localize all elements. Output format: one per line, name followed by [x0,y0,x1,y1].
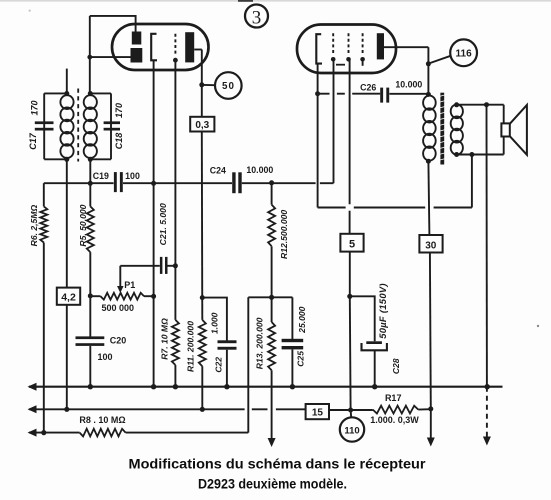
svg-text:0,3: 0,3 [195,120,209,131]
svg-text:R12.500.000: R12.500.000 [279,210,289,259]
svg-text:C22: C22 [214,357,224,373]
svg-text:R5. 50.000: R5. 50.000 [78,204,88,246]
svg-text:R6. 2,5MΩ: R6. 2,5MΩ [29,205,39,247]
svg-text:Modifications du schéma dans l: Modifications du schéma dans le récepteu… [129,457,427,472]
svg-text:D2923 deuxième modèle.: D2923 deuxième modèle. [198,477,347,492]
svg-text:5: 5 [349,239,355,251]
svg-text:C20: C20 [110,336,127,346]
svg-text:R17: R17 [385,393,402,403]
svg-text:10.000: 10.000 [395,80,422,90]
svg-text:500 000: 500 000 [102,303,135,313]
svg-text:C25: C25 [296,351,306,367]
svg-text:R13. 200.000: R13. 200.000 [254,317,264,369]
svg-text:50: 50 [222,81,235,92]
svg-text:C17: C17 [28,132,38,150]
svg-text:1.000. 0,3W: 1.000. 0,3W [370,415,419,425]
svg-text:3: 3 [252,8,262,29]
svg-text:100: 100 [125,171,140,181]
svg-text:P1: P1 [124,280,135,290]
svg-text:100: 100 [97,352,112,362]
svg-text:C21. 5.000: C21. 5.000 [158,203,168,245]
svg-text:C28: C28 [391,358,401,374]
svg-text:170: 170 [29,100,39,115]
svg-text:1.000: 1.000 [209,312,219,334]
svg-text:R11. 200.000: R11. 200.000 [186,321,196,372]
svg-text:25.000: 25.000 [297,306,307,334]
svg-text:170: 170 [114,103,124,118]
svg-text:R8 . 10 MΩ: R8 . 10 MΩ [79,415,125,425]
svg-text:10.000: 10.000 [246,165,273,175]
svg-text:4,2: 4,2 [61,292,76,304]
svg-text:R7. 10 MΩ: R7. 10 MΩ [160,318,170,360]
svg-text:30: 30 [425,241,437,252]
svg-text:C26: C26 [360,82,376,92]
svg-text:C19: C19 [93,171,109,181]
svg-text:116: 116 [456,49,473,60]
svg-text:15: 15 [312,408,324,419]
svg-text:C24: C24 [210,166,226,176]
svg-text:50µF (150V): 50µF (150V) [377,283,388,339]
svg-text:C18: C18 [114,133,124,150]
svg-text:110: 110 [344,425,359,436]
